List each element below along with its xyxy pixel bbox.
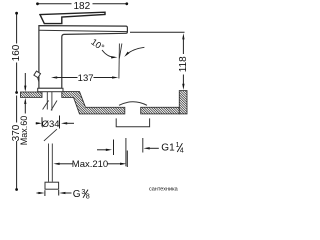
svg-text:Max.210: Max.210 bbox=[72, 159, 108, 170]
svg-text:сантехника: сантехника bbox=[149, 187, 179, 193]
svg-text:Max.60: Max.60 bbox=[19, 116, 29, 146]
svg-text:118: 118 bbox=[178, 56, 189, 72]
svg-text:137: 137 bbox=[78, 73, 94, 84]
svg-text:160: 160 bbox=[11, 44, 22, 61]
svg-text:4: 4 bbox=[180, 146, 184, 155]
svg-text:G1: G1 bbox=[161, 143, 175, 154]
svg-text:8: 8 bbox=[86, 191, 90, 200]
svg-text:G: G bbox=[73, 189, 81, 200]
svg-text:182: 182 bbox=[73, 1, 90, 12]
svg-text:Ø34: Ø34 bbox=[42, 119, 60, 130]
